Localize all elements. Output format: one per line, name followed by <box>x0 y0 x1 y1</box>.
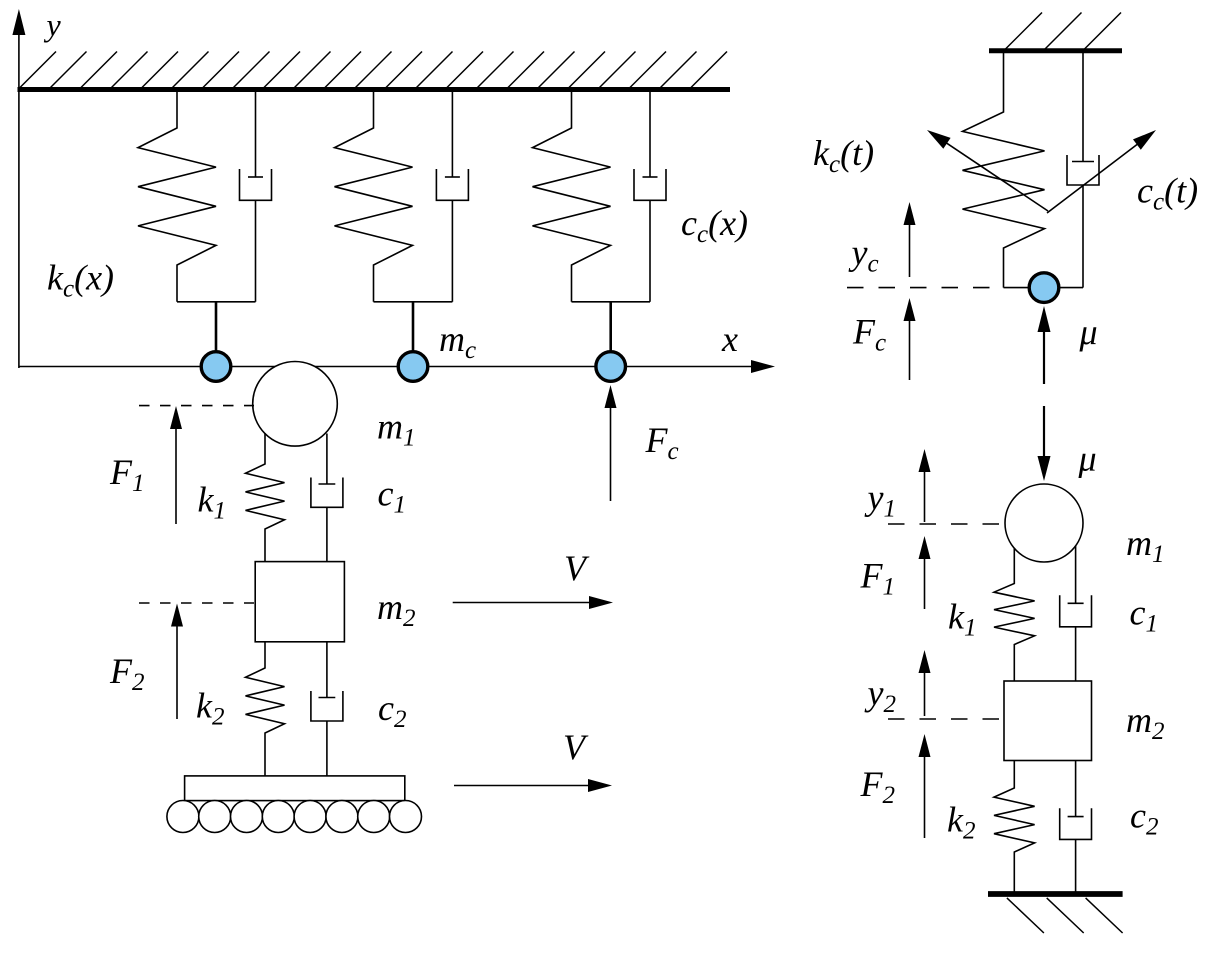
svg-text:y: y <box>44 7 62 43</box>
svg-text:kc(t): kc(t) <box>813 133 874 178</box>
force arrow F1 <box>175 426 177 524</box>
right mass m1 circle <box>1005 484 1083 562</box>
ceiling hatching <box>20 52 56 88</box>
contact node 3 (blue) <box>596 352 626 382</box>
svg-text:μ: μ <box>1078 439 1097 479</box>
svg-text:x: x <box>721 319 738 359</box>
force arrow F1 right <box>924 556 926 609</box>
catenary damper 2 <box>451 90 453 178</box>
contact node 1 (blue) <box>201 352 231 382</box>
contact node right (blue) <box>1029 273 1059 303</box>
wire drop to contact node 2 <box>412 302 415 352</box>
svg-text:cc(t): cc(t) <box>1137 171 1198 216</box>
contact pressure arrow mu up <box>1043 329 1045 384</box>
svg-text:kc(x): kc(x) <box>47 258 114 303</box>
spring k2 <box>246 642 285 776</box>
contact force arrow Fc <box>610 405 612 501</box>
right mass m2 rectangle <box>1004 681 1092 761</box>
y axis <box>18 32 20 368</box>
dashed datum line at m1 <box>139 405 254 407</box>
variable arrow through spring kc(t) <box>945 142 1049 211</box>
right damper c1 <box>1075 546 1077 603</box>
catenary spring 1 <box>138 90 216 302</box>
wire connector pair 1 <box>177 301 256 303</box>
mass m2 rectangle <box>255 562 344 642</box>
damper c2 <box>326 642 328 698</box>
spring k1 <box>246 433 285 562</box>
force arrow Fc right <box>909 318 911 380</box>
catenary spring 3 <box>533 90 611 302</box>
dashed datum line at m2 <box>139 602 254 604</box>
wire connector pair 3 <box>572 301 651 303</box>
displacement arrow y2 <box>924 670 926 716</box>
wire drop to contact node 1 <box>215 302 218 352</box>
right damper c2 <box>1075 761 1077 817</box>
svg-text:μ: μ <box>1079 312 1098 352</box>
base plate <box>185 776 405 801</box>
velocity arrow V lower <box>454 785 591 787</box>
damper c1 <box>326 434 328 485</box>
force arrow F2 <box>176 624 178 720</box>
contact pressure arrow mu down <box>1043 406 1045 459</box>
variable arrow through damper cc(t) <box>1047 143 1139 213</box>
catenary spring 2 <box>335 90 413 302</box>
dashed datum line at right m2 <box>888 718 1004 720</box>
displacement arrow yc <box>909 222 911 277</box>
wheels <box>167 801 199 833</box>
ceiling (catenary support) <box>18 87 731 92</box>
dashed datum line at contact node <box>847 287 996 289</box>
mass m1 circle (pantograph head) <box>253 362 338 447</box>
displacement arrow y1 <box>924 469 926 522</box>
right catenary damper cc(t) <box>1082 51 1084 162</box>
wire drop to contact node 3 <box>609 302 612 352</box>
right ceiling <box>989 48 1122 53</box>
catenary damper 1 <box>255 90 257 178</box>
velocity arrow V upper <box>453 602 592 604</box>
wire connector right <box>1004 287 1084 289</box>
catenary damper 3 <box>649 90 651 178</box>
right catenary spring kc(t) <box>963 51 1045 288</box>
right ceiling hatching <box>1005 13 1042 50</box>
x axis <box>19 366 753 368</box>
right spring k1 <box>994 548 1035 681</box>
svg-text:cc(x): cc(x) <box>681 203 748 248</box>
force arrow F2 right <box>924 754 926 838</box>
ground hatching <box>1007 898 1044 933</box>
wire connector pair 2 <box>374 301 453 303</box>
right spring k2 <box>994 761 1035 892</box>
ground <box>988 891 1123 897</box>
contact node 2 (blue) <box>398 352 428 382</box>
dashed datum line at right m1 <box>888 523 1004 525</box>
